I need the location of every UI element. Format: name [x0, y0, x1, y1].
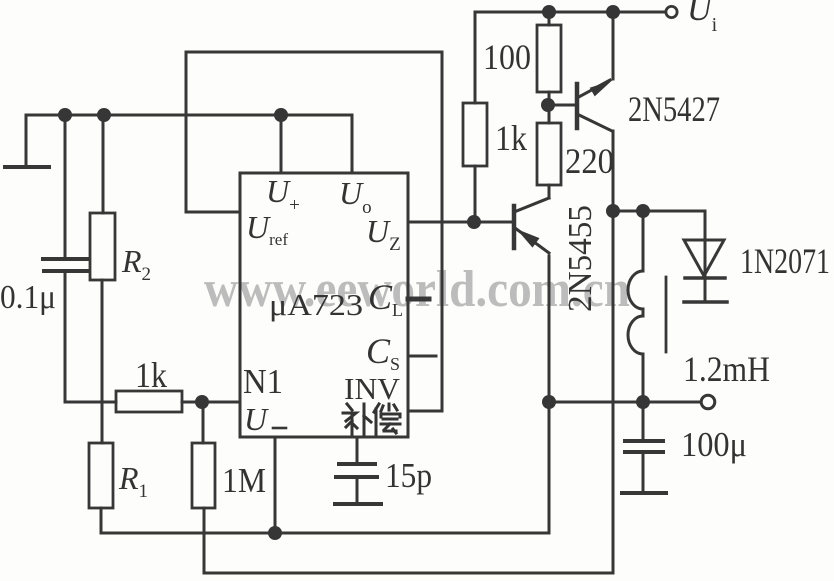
inductor 1.2mH [628, 211, 666, 402]
svg-text:μA723: μA723 [269, 287, 363, 322]
junction dot rail/0.1u [58, 108, 72, 122]
svg-text:1k: 1k [495, 118, 527, 158]
wire feedback loop Uref-INV [186, 52, 442, 411]
svg-text:2N5427: 2N5427 [628, 89, 720, 129]
wire base of 2N5427 [548, 104, 575, 107]
svg-text:Uo: Uo [339, 175, 372, 218]
svg-text:1N2071: 1N2071 [740, 241, 830, 281]
wire Uz to base [408, 221, 514, 224]
svg-text:CS: CS [366, 331, 400, 374]
wire main left rail [26, 114, 352, 117]
wire switch node [613, 211, 705, 240]
wire R2 to R1 column [101, 280, 104, 443]
transistor Q2 2N5455 [514, 198, 549, 253]
svg-text:Ui: Ui [687, 0, 718, 36]
resistor 1k vertical [463, 103, 487, 166]
junction dot rail/U+ [274, 108, 288, 122]
wire 1k to Uz node [474, 166, 477, 222]
svg-text:U: U [244, 401, 269, 437]
junction dot input/100 [542, 5, 556, 19]
wire Uo pin [351, 115, 354, 173]
junction dot rail/R2 [97, 108, 111, 122]
junction dot base node [541, 98, 555, 112]
wire input rail top [475, 11, 665, 14]
resistor R1 [89, 443, 113, 508]
svg-text:100μ: 100μ [681, 425, 747, 464]
svg-text:0.1μ: 0.1μ [0, 279, 56, 316]
svg-text:INV: INV [344, 371, 401, 406]
wire R1 bottom [100, 508, 103, 533]
junction dot input/emitter column [606, 5, 620, 19]
svg-text:Uref: Uref [246, 209, 288, 249]
capacitor 0.1u [43, 115, 88, 402]
svg-text:2N5455: 2N5455 [562, 205, 599, 312]
wire emitter down and bottom inner rail [101, 256, 549, 533]
wire emitter up to rail [612, 12, 615, 79]
junction dot output/emitter [542, 395, 556, 409]
svg-text:15p: 15p [385, 456, 432, 495]
junction dot output/inductor [636, 395, 650, 409]
capacitor 100u [622, 402, 666, 493]
resistor R2 [90, 115, 115, 280]
label buchang (Chinese) [343, 404, 400, 434]
junction dot inner rail / U- pin [268, 526, 282, 540]
svg-text:1M: 1M [222, 461, 266, 500]
wire output [549, 401, 699, 404]
wire collector column down [612, 131, 615, 573]
junction dot switch/inductor [636, 204, 650, 218]
resistor 220 [537, 105, 561, 198]
svg-text:UZ: UZ [366, 213, 401, 255]
svg-text:R1: R1 [118, 460, 148, 502]
terminal output [701, 395, 715, 409]
svg-text:1.2mH: 1.2mH [683, 349, 770, 389]
stub CS [408, 355, 436, 358]
svg-text:1k: 1k [135, 355, 167, 395]
junction dot 1k/1M [195, 395, 209, 409]
ground [5, 115, 49, 167]
IC N1 uA723 box [240, 173, 408, 437]
resistor 1M [192, 402, 215, 508]
resistor 100 [537, 12, 561, 105]
svg-text:N1: N1 [243, 362, 283, 401]
terminal Ui [666, 6, 677, 17]
junction dot Uz/1k [467, 215, 481, 229]
capacitor 15p [335, 437, 381, 504]
svg-text:R2: R2 [121, 243, 151, 285]
resistor 1k horizontal [65, 391, 240, 412]
svg-text:220: 220 [565, 141, 614, 181]
junction dot switch/collector [606, 204, 620, 218]
wire input rail to 1k [474, 12, 477, 103]
transistor Q1 2N5427 [577, 80, 612, 131]
wire bottom outer rail [204, 508, 613, 573]
wire U- pin down [274, 437, 277, 533]
svg-text:U+: U+ [266, 173, 300, 216]
svg-text:100: 100 [483, 37, 531, 77]
wire U+ pin [280, 115, 283, 173]
diode 1N2071 [684, 240, 727, 302]
stub CL [408, 297, 429, 302]
